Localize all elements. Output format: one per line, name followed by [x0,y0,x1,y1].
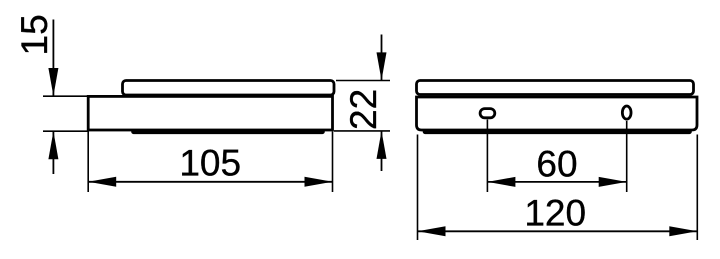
left mounting slot [480,109,495,118]
dimension 22 leader lines and arrows [377,35,387,172]
dimension 22 extension line top [336,80,390,82]
bottom insert (side view) [134,130,323,135]
dimension 105 extension line right [332,132,334,193]
svg-text:22: 22 [343,89,384,130]
dimension 105 line and arrows [88,177,332,187]
svg-text:105: 105 [179,143,241,184]
dimension 60 line and arrows [487,177,626,187]
svg-text:120: 120 [524,193,586,234]
svg-text:60: 60 [536,144,577,185]
svg-text:15: 15 [14,14,55,55]
dimension 15 extension line bottom [43,130,89,132]
dimension 120 extension line left [417,135,419,241]
dimension 120 line and arrows [418,226,698,236]
dimension 15 extension line top [43,95,89,97]
dimension 22 extension line bottom [334,130,390,132]
dimension 15 leader lines and arrows [48,20,58,175]
dimension 105 extension line left [87,132,89,193]
shelf plate (side view) [123,81,335,96]
right mounting hole [622,106,631,119]
dimension 60 extension line left [486,120,488,193]
holder body (side view) [88,96,332,130]
holder body (front view) [417,97,698,130]
dimension 120 extension line right [696,135,698,241]
bottom insert (front view) [425,130,690,135]
shelf plate (front view) [417,81,694,95]
dimension 60 extension line right [626,121,628,192]
